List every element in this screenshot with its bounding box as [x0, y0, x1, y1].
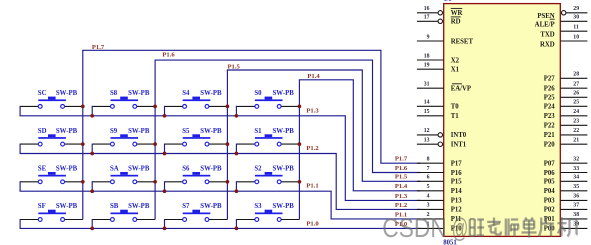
pin 31 EA/VP (left)	[417, 82, 471, 93]
junction: col1 vertical x row3 switch wire	[81, 180, 85, 184]
svg-text:16: 16	[424, 6, 430, 12]
svg-text:7: 7	[427, 166, 430, 172]
switch S7 SW-PB push button	[165, 203, 228, 228]
svg-text:SW-PB: SW-PB	[200, 90, 222, 97]
svg-text:SW-PB: SW-PB	[273, 203, 295, 210]
svg-text:SW-PB: SW-PB	[56, 90, 78, 97]
switch SA SW-PB push button	[92, 166, 155, 192]
pin 25 P24 (right)	[544, 100, 588, 111]
wire net P1.3: row-1 line to pin 4	[20, 116, 421, 201]
svg-text:10: 10	[573, 34, 579, 40]
svg-text:SW-PB: SW-PB	[128, 203, 150, 210]
svg-text:P1.6: P1.6	[162, 51, 175, 58]
svg-text:P1.6: P1.6	[395, 165, 408, 172]
svg-text:P1.7: P1.7	[92, 44, 105, 51]
switch SB SW-PB push button	[92, 203, 155, 228]
pin 12 INT0 (left)	[417, 128, 467, 139]
watermark CJK glyph lao	[487, 218, 501, 235]
pin 5 P14 (left)	[417, 184, 462, 195]
svg-text:X2: X2	[451, 57, 460, 64]
svg-text:P17: P17	[451, 161, 463, 168]
svg-text:SW-PB: SW-PB	[273, 90, 295, 97]
svg-text:P04: P04	[544, 188, 556, 195]
pin 39 P00 (right)	[544, 222, 588, 233]
pin 7 P16 (left)	[417, 166, 462, 177]
svg-text:S1: S1	[254, 128, 262, 135]
junction: col3 vertical x row2 switch wire	[226, 142, 230, 146]
junction: col3 vertical x row1 switch wire	[226, 105, 230, 109]
pin 33 P06 (right)	[544, 166, 588, 177]
svg-text:28: 28	[573, 72, 579, 78]
pin 19 X1 (left)	[417, 63, 460, 74]
pin 23 P22 (right)	[544, 119, 588, 130]
pin 9 RESET (left)	[417, 34, 474, 45]
svg-text:S8: S8	[110, 90, 118, 97]
junction: row line P1.1 x col2 drop	[90, 189, 94, 193]
svg-text:U1: U1	[444, 0, 452, 3]
svg-text:SE: SE	[38, 166, 47, 173]
pin 28 P27 (right)	[544, 72, 588, 83]
junction: col2 vertical x row1 switch wire	[153, 105, 157, 109]
wire net P1.1: row-3 line to pin 2	[20, 191, 421, 219]
svg-text:S3: S3	[254, 203, 262, 210]
svg-text:4: 4	[427, 194, 430, 200]
svg-text:P21: P21	[544, 132, 556, 139]
wire net P1.2: row-2 line to pin 3	[20, 154, 421, 210]
svg-text:T0: T0	[451, 104, 460, 111]
svg-text:SW-PB: SW-PB	[128, 166, 150, 173]
svg-text:S5: S5	[182, 128, 190, 135]
svg-text:38: 38	[573, 212, 579, 218]
svg-text:P1.7: P1.7	[395, 156, 408, 163]
junction: col4 vertical x row1 switch wire	[298, 105, 302, 109]
svg-text:SB: SB	[110, 203, 119, 210]
svg-text:P13: P13	[451, 198, 463, 205]
junction: row line P1.0 x col4 drop	[235, 227, 239, 231]
svg-text:SF: SF	[38, 203, 46, 210]
svg-text:SW-PB: SW-PB	[56, 203, 78, 210]
svg-text:SW-PB: SW-PB	[128, 128, 150, 135]
junction: row line P1.1 x col3 drop	[163, 189, 167, 193]
svg-text:SW-PB: SW-PB	[273, 128, 295, 135]
wire net P1.0: row-4 line to pin 1	[20, 227, 421, 229]
pin 26 P25 (right)	[544, 91, 588, 102]
junction: row line P1.0 x col2 drop	[90, 227, 94, 231]
svg-text:P16: P16	[451, 170, 463, 177]
wire net P1.5: column-3 vertical bus, top run, descent to pin 6	[227, 70, 421, 220]
svg-text:SA: SA	[110, 166, 119, 173]
junction: col2 vertical x row3 switch wire	[153, 180, 157, 184]
pin 13 INT1 (left)	[417, 138, 467, 149]
svg-text:SW-PB: SW-PB	[200, 166, 222, 173]
svg-text:TXD: TXD	[540, 32, 554, 39]
junction: col1 vertical x row1 switch wire	[81, 105, 85, 109]
junction: row line P1.0 x col3 drop	[163, 227, 167, 231]
switch S4 SW-PB push button	[165, 90, 228, 116]
svg-text:17: 17	[424, 15, 430, 21]
svg-text:26: 26	[573, 91, 579, 97]
junction: row line P1.3 x col3 drop	[163, 114, 167, 118]
junction: row line P1.3 x col2 drop	[90, 114, 94, 118]
pin 16 WR (left)	[417, 6, 463, 17]
watermark CJK glyph shi	[506, 219, 519, 237]
pin 27 P26 (right)	[544, 82, 588, 93]
pin 30 ALE/P (right)	[535, 15, 588, 29]
svg-text:P1.0: P1.0	[306, 221, 319, 228]
svg-text:S2: S2	[254, 166, 262, 173]
pin 24 P23 (right)	[544, 109, 588, 120]
svg-text:P03: P03	[544, 198, 556, 205]
svg-text:P25: P25	[544, 95, 556, 102]
svg-text:14: 14	[424, 100, 430, 106]
svg-text:P1.5: P1.5	[395, 174, 408, 181]
svg-text:@: @	[452, 213, 469, 243]
pin 37 P02 (right)	[544, 203, 588, 214]
switch S9 SW-PB push button	[92, 128, 155, 154]
svg-text:S7: S7	[182, 203, 190, 210]
junction: row line P1.3 x col4 drop	[235, 114, 239, 118]
pin 3 P12 (left)	[417, 203, 462, 214]
svg-text:S9: S9	[110, 128, 118, 135]
svg-text:ALE/P: ALE/P	[535, 22, 555, 29]
svg-text:S6: S6	[182, 166, 190, 173]
svg-text:5: 5	[427, 184, 430, 190]
watermark CJK glyph ji	[558, 217, 578, 237]
svg-text:P07: P07	[544, 161, 556, 168]
svg-text:P1.2: P1.2	[395, 202, 408, 209]
svg-text:S0: S0	[254, 90, 262, 97]
pin 1 P10 (left)	[417, 222, 462, 233]
svg-text:P1.1: P1.1	[306, 183, 318, 190]
switch SC SW-PB push button	[20, 90, 83, 116]
pin 2 P11 (left)	[417, 212, 462, 223]
svg-text:35: 35	[573, 184, 579, 190]
switch S8 SW-PB push button	[92, 90, 155, 116]
junction: col1 vertical x row2 switch wire	[81, 142, 85, 146]
pin 22 P21 (right)	[544, 128, 588, 139]
pin 18 X2 (left)	[417, 53, 460, 64]
svg-text:SW-PB: SW-PB	[128, 90, 150, 97]
pin 15 T1 (left)	[417, 109, 459, 120]
svg-text:SD: SD	[38, 128, 47, 135]
pin 29 PSEN (right)	[537, 6, 587, 20]
svg-text:SW-PB: SW-PB	[273, 166, 295, 173]
svg-text:P00: P00	[544, 226, 556, 233]
svg-text:15: 15	[424, 109, 430, 115]
svg-text:23: 23	[573, 119, 579, 125]
svg-text:18: 18	[424, 53, 430, 59]
pin 38 P01 (right)	[544, 212, 588, 223]
junction: row line P1.2 x col3 drop	[163, 152, 167, 156]
svg-text:11: 11	[573, 25, 579, 31]
svg-text:27: 27	[573, 82, 579, 88]
junction: col3 vertical x row3 switch wire	[226, 180, 230, 184]
svg-text:P22: P22	[544, 123, 556, 130]
junction: col4 vertical x row3 switch wire	[298, 180, 302, 184]
svg-text:32: 32	[573, 157, 579, 163]
svg-text:RESET: RESET	[451, 38, 474, 45]
svg-text:P15: P15	[451, 179, 463, 186]
svg-text:37: 37	[573, 203, 579, 209]
svg-text:INT1: INT1	[451, 142, 467, 149]
watermark CJK glyph dan	[522, 218, 537, 238]
svg-text:22: 22	[573, 128, 579, 134]
svg-text:P1.2: P1.2	[306, 145, 319, 152]
svg-text:33: 33	[573, 166, 579, 172]
svg-text:T1: T1	[451, 113, 460, 120]
svg-text:CSDN: CSDN	[382, 213, 447, 243]
wire net P1.7: column-1 vertical bus, top run, descent to pin 8	[82, 50, 420, 219]
pin 35 P04 (right)	[544, 184, 588, 195]
switch S5 SW-PB push button	[165, 128, 228, 154]
switch S3 SW-PB push button	[236, 203, 299, 228]
pin 17 RD (left)	[417, 15, 461, 26]
switch SF SW-PB push button	[20, 203, 83, 228]
switch S6 SW-PB push button	[165, 166, 228, 192]
pin 21 P20 (right)	[544, 138, 588, 149]
svg-text:31: 31	[424, 82, 430, 88]
svg-text:SW-PB: SW-PB	[200, 128, 222, 135]
svg-text:12: 12	[424, 128, 430, 134]
watermark CJK glyph pian	[539, 218, 554, 237]
svg-text:RXD: RXD	[540, 41, 555, 48]
svg-text:P1.4: P1.4	[395, 183, 408, 190]
switch SE SW-PB push button	[20, 166, 83, 192]
switch S0 SW-PB push button	[236, 90, 299, 116]
pin 10 RXD (right)	[540, 34, 587, 48]
svg-text:P26: P26	[544, 86, 556, 93]
pin 32 P07 (right)	[544, 157, 588, 168]
pin 14 T0 (left)	[417, 100, 459, 111]
junction: row line P1.2 x col2 drop	[90, 152, 94, 156]
chip U1 8051 body	[444, 4, 561, 237]
svg-text:8: 8	[427, 157, 430, 163]
svg-text:9: 9	[427, 34, 430, 40]
svg-text:P14: P14	[451, 188, 463, 195]
svg-text:SC: SC	[38, 90, 47, 97]
svg-text:WR: WR	[451, 10, 463, 17]
svg-text:P20: P20	[544, 142, 556, 149]
pin 34 P05 (right)	[544, 175, 588, 186]
junction: row line P1.1 x col4 drop	[235, 189, 239, 193]
wire net P1.4: column-4 vertical bus, top run, descent to pin 5	[299, 80, 421, 220]
pin 11 TXD (right)	[540, 25, 587, 39]
svg-text:6: 6	[427, 175, 430, 181]
svg-text:34: 34	[573, 175, 579, 181]
svg-text:P06: P06	[544, 170, 556, 177]
svg-text:P27: P27	[544, 76, 556, 83]
svg-text:X1: X1	[451, 67, 460, 74]
junction: row line P1.2 x col4 drop	[235, 152, 239, 156]
svg-text:RD: RD	[451, 19, 461, 26]
svg-text:P05: P05	[544, 179, 556, 186]
svg-text:P1.4: P1.4	[307, 73, 320, 80]
pin 8 P17 (left)	[417, 157, 462, 168]
svg-text:25: 25	[573, 100, 579, 106]
svg-text:SW-PB: SW-PB	[200, 203, 222, 210]
svg-text:P1.3: P1.3	[306, 107, 319, 114]
svg-text:S4: S4	[182, 90, 190, 97]
switch S2 SW-PB push button	[236, 166, 299, 192]
svg-text:SW-PB: SW-PB	[56, 166, 78, 173]
svg-text:INT0: INT0	[451, 132, 467, 139]
svg-text:P02: P02	[544, 207, 556, 214]
svg-text:13: 13	[424, 138, 430, 144]
svg-text:30: 30	[573, 15, 579, 21]
svg-text:21: 21	[573, 138, 579, 144]
svg-text:36: 36	[573, 194, 579, 200]
svg-text:24: 24	[573, 109, 579, 115]
pin 36 P03 (right)	[544, 194, 588, 205]
svg-text:P24: P24	[544, 104, 556, 111]
junction: col4 vertical x row2 switch wire	[298, 142, 302, 146]
switch S1 SW-PB push button	[236, 128, 299, 154]
svg-text:29: 29	[573, 6, 579, 12]
svg-text:P1.5: P1.5	[228, 63, 241, 70]
svg-text:19: 19	[424, 63, 430, 69]
pin 4 P13 (left)	[417, 194, 462, 205]
svg-text:P23: P23	[544, 113, 556, 120]
watermark CJK glyph wang	[470, 219, 484, 236]
junction: col2 vertical x row2 switch wire	[153, 142, 157, 146]
switch SD SW-PB push button	[20, 128, 83, 154]
svg-text:SW-PB: SW-PB	[56, 128, 78, 135]
svg-text:3: 3	[427, 203, 430, 209]
svg-text:P1.3: P1.3	[395, 193, 408, 200]
wire net P1.6: column-2 vertical bus, top run, descent to pin 7	[155, 60, 421, 219]
pin 6 P15 (left)	[417, 175, 462, 186]
svg-text:EA/VP: EA/VP	[451, 86, 471, 93]
